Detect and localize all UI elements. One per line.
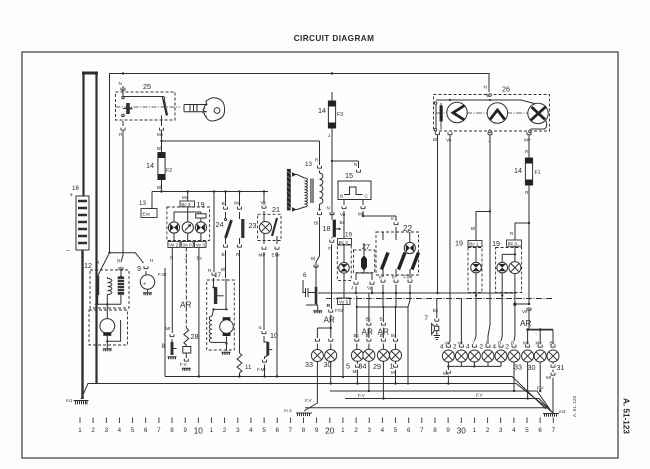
- svg-text:Bc: Bc: [366, 317, 372, 322]
- svg-text:Bl: Bl: [433, 137, 437, 142]
- svg-text:Mv: Mv: [157, 132, 164, 137]
- svg-text:30: 30: [457, 427, 467, 436]
- svg-text:AR: AR: [378, 328, 389, 337]
- svg-text:J: J: [351, 285, 353, 290]
- svg-text:1: 1: [210, 427, 214, 434]
- svg-text:Bc: Bc: [354, 333, 360, 338]
- svg-text:4: 4: [493, 344, 497, 351]
- svg-text:6: 6: [538, 427, 542, 434]
- svg-text:30: 30: [528, 363, 536, 372]
- svg-text:3: 3: [105, 427, 109, 434]
- svg-text:Ve: Ve: [340, 212, 346, 217]
- svg-text:Ve 2: Ve 2: [169, 243, 179, 248]
- svg-text:Mr: Mr: [443, 371, 449, 376]
- svg-text:H: H: [150, 258, 153, 263]
- svg-text:5: 5: [394, 427, 398, 434]
- svg-text:Ve 3: Ve 3: [196, 243, 206, 248]
- svg-text:6: 6: [407, 427, 411, 434]
- svg-text:Bl: Bl: [222, 201, 226, 206]
- svg-text:Ve 5: Ve 5: [339, 300, 349, 305]
- svg-text:F.Mr: F.Mr: [257, 367, 266, 372]
- svg-text:6: 6: [303, 272, 307, 279]
- svg-text:8: 8: [162, 343, 166, 350]
- svg-text:Bc: Bc: [550, 341, 556, 346]
- svg-text:5: 5: [525, 427, 529, 434]
- svg-text:Mv: Mv: [358, 212, 365, 217]
- svg-text:m1: m1: [66, 398, 73, 403]
- svg-text:–: –: [66, 247, 70, 254]
- svg-text:Bc: Bc: [197, 256, 203, 261]
- svg-text:Mr: Mr: [391, 370, 397, 375]
- svg-text:Mv: Mv: [234, 201, 241, 206]
- svg-text:19: 19: [197, 200, 205, 209]
- svg-text:3: 3: [236, 427, 240, 434]
- svg-text:N: N: [484, 85, 487, 90]
- svg-text:Bl: Bl: [311, 256, 315, 261]
- svg-text:3: 3: [499, 427, 503, 434]
- svg-text:6: 6: [144, 427, 148, 434]
- svg-text:31: 31: [557, 363, 565, 372]
- svg-text:19: 19: [455, 239, 463, 248]
- svg-text:23: 23: [249, 221, 257, 230]
- svg-text:9: 9: [183, 427, 187, 434]
- svg-text:N: N: [96, 260, 99, 265]
- svg-text:Bl: Bl: [380, 317, 384, 322]
- svg-text:AR: AR: [324, 316, 335, 325]
- svg-text:13: 13: [139, 200, 146, 207]
- svg-text:9: 9: [137, 264, 141, 273]
- svg-text:J: J: [472, 341, 474, 346]
- svg-text:19: 19: [492, 239, 500, 248]
- svg-text:8: 8: [302, 427, 306, 434]
- svg-text:EMr: EMr: [272, 253, 281, 258]
- svg-text:26: 26: [502, 85, 510, 94]
- svg-text:2: 2: [223, 427, 227, 434]
- svg-text:8: 8: [170, 427, 174, 434]
- svg-text:F.Mr: F.Mr: [404, 275, 413, 280]
- svg-text:N: N: [327, 206, 330, 211]
- svg-text:9: 9: [446, 427, 450, 434]
- svg-text:4: 4: [440, 344, 444, 351]
- svg-text:20: 20: [325, 427, 335, 436]
- svg-text:27: 27: [362, 242, 370, 251]
- svg-text:16: 16: [72, 185, 79, 192]
- svg-text:Mr: Mr: [546, 375, 552, 380]
- svg-text:13: 13: [305, 161, 312, 168]
- svg-text:10: 10: [194, 427, 204, 436]
- svg-text:24: 24: [216, 220, 224, 229]
- svg-text:33: 33: [514, 363, 522, 372]
- svg-text:25: 25: [143, 82, 151, 91]
- svg-text:N: N: [354, 162, 357, 167]
- svg-text:F.V: F.V: [537, 386, 545, 391]
- svg-text:Bl: Bl: [471, 226, 475, 231]
- svg-text:12: 12: [84, 261, 92, 270]
- svg-text:15: 15: [345, 171, 353, 180]
- svg-text:11: 11: [245, 364, 252, 371]
- svg-text:9: 9: [315, 427, 319, 434]
- svg-text:F.V: F.V: [180, 362, 188, 367]
- svg-text:7: 7: [289, 427, 293, 434]
- svg-text:F3: F3: [337, 112, 343, 118]
- svg-text:28: 28: [191, 332, 199, 341]
- svg-text:2: 2: [354, 427, 358, 434]
- svg-text:Mv: Mv: [524, 138, 531, 143]
- svg-text:3: 3: [367, 427, 371, 434]
- svg-text:7: 7: [420, 427, 424, 434]
- svg-text:F.V: F.V: [358, 393, 366, 398]
- svg-text:AR: AR: [180, 301, 191, 310]
- svg-text:6: 6: [275, 427, 279, 434]
- svg-text:Bl: Bl: [222, 252, 226, 257]
- svg-text:5: 5: [262, 427, 266, 434]
- svg-text:Bc 3: Bc 3: [181, 202, 191, 207]
- svg-text:21: 21: [272, 205, 280, 214]
- svg-text:1: 1: [78, 427, 82, 434]
- svg-text:m 2: m 2: [284, 408, 292, 413]
- svg-text:14: 14: [514, 166, 522, 175]
- svg-text:Mv: Mv: [523, 341, 530, 346]
- svg-text:Bc: Bc: [391, 333, 397, 338]
- svg-text:Ve: Ve: [445, 341, 451, 346]
- svg-text:19: 19: [345, 232, 352, 239]
- svg-text:5: 5: [131, 427, 135, 434]
- svg-text:MP: MP: [259, 253, 266, 258]
- svg-text:22: 22: [403, 224, 413, 233]
- svg-text:2: 2: [453, 344, 457, 351]
- svg-text:N: N: [119, 81, 122, 86]
- svg-text:4: 4: [118, 427, 122, 434]
- svg-text:F.Gr: F.Gr: [158, 272, 167, 277]
- svg-text:+: +: [143, 282, 146, 288]
- svg-text:7: 7: [552, 427, 556, 434]
- svg-text:7: 7: [157, 427, 161, 434]
- svg-text:Ve: Ve: [522, 309, 528, 314]
- svg-text:14: 14: [146, 161, 154, 170]
- svg-text:7: 7: [425, 315, 429, 322]
- svg-text:2: 2: [480, 344, 484, 351]
- svg-text:A. 51. 123: A. 51. 123: [572, 396, 577, 417]
- svg-text:Bc: Bc: [433, 308, 439, 313]
- svg-text:8: 8: [433, 427, 437, 434]
- svg-text:J: J: [328, 133, 330, 138]
- svg-text:30: 30: [324, 360, 332, 369]
- svg-text:F.V: F.V: [476, 393, 484, 398]
- svg-text:F/Gr: F/Gr: [335, 308, 345, 313]
- svg-text:Ve: Ve: [446, 138, 452, 143]
- svg-text:Bl: Bl: [157, 185, 161, 190]
- svg-text:33: 33: [305, 360, 313, 369]
- svg-text:4: 4: [381, 427, 385, 434]
- svg-text:F.V: F.V: [305, 398, 313, 403]
- svg-text:34: 34: [359, 362, 367, 371]
- svg-text:14: 14: [318, 106, 326, 115]
- svg-text:AR: AR: [520, 319, 531, 328]
- svg-text:10: 10: [270, 331, 278, 340]
- svg-text:Ve 0: Ve 0: [182, 243, 192, 248]
- svg-text:J: J: [485, 341, 487, 346]
- svg-text:+: +: [70, 192, 74, 199]
- svg-text:Bl: Bl: [314, 221, 318, 226]
- svg-text:2: 2: [506, 344, 510, 351]
- svg-text:Ve: Ve: [458, 341, 464, 346]
- svg-text:Bc 4: Bc 4: [508, 241, 518, 246]
- svg-text:Ve: Ve: [261, 200, 267, 205]
- svg-text:2: 2: [486, 427, 490, 434]
- svg-text:F2: F2: [166, 168, 172, 174]
- svg-text:AR: AR: [362, 328, 373, 337]
- svg-text:18: 18: [323, 224, 331, 233]
- svg-text:Mv: Mv: [536, 341, 543, 346]
- svg-text:4: 4: [512, 427, 516, 434]
- svg-text:m3: m3: [559, 409, 566, 414]
- svg-text:4: 4: [466, 344, 470, 351]
- svg-text:5: 5: [346, 362, 350, 371]
- svg-text:Bl: Bl: [221, 267, 225, 272]
- svg-text:Bc 1: Bc 1: [469, 242, 479, 247]
- svg-text:Exc: Exc: [143, 212, 151, 217]
- svg-text:1: 1: [341, 427, 345, 434]
- svg-text:Bc: Bc: [340, 220, 346, 225]
- svg-text:4: 4: [249, 427, 253, 434]
- svg-text:Bl: Bl: [157, 146, 161, 151]
- svg-text:Mr: Mr: [166, 326, 172, 331]
- svg-text:B: B: [340, 194, 343, 199]
- svg-text:CIRCUIT DIAGRAM: CIRCUIT DIAGRAM: [294, 34, 375, 43]
- svg-text:2: 2: [91, 427, 95, 434]
- svg-text:29: 29: [373, 362, 381, 371]
- svg-text:A. 51-123: A. 51-123: [622, 398, 631, 434]
- svg-text:1: 1: [473, 427, 477, 434]
- svg-text:F1: F1: [535, 170, 541, 176]
- svg-text:Mr: Mr: [353, 369, 359, 374]
